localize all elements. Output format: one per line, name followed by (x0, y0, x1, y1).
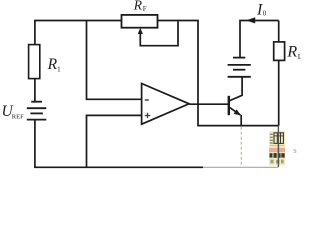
transistor Q1 collector (229, 77, 242, 101)
label RF (133, 0, 147, 13)
svg-text:R: R (286, 44, 297, 61)
svg-text:S: S (293, 148, 297, 155)
svg-text:1: 1 (57, 64, 61, 73)
label UREF (2, 103, 25, 121)
wire riser to op-amp inverting input (87, 21, 142, 100)
current arrow I0 (246, 17, 255, 23)
wire RF right terminal, feedback vertical, and lower horizontal to RL (158, 21, 279, 126)
op-amp U1 (142, 84, 190, 125)
label R1 (47, 56, 61, 74)
transistor Q1 emitter with arrow (229, 107, 241, 126)
wire RL top (278, 21, 280, 43)
gray RL wire continuation through watermark to bottom rail (277, 126, 279, 167)
wire R1 bottom to battery UREF (34, 79, 36, 101)
label I0 (256, 1, 267, 18)
svg-text:L: L (298, 52, 301, 61)
wire RL bottom down to lower horizontal (278, 60, 280, 125)
wire battery top to right loop top wire (240, 21, 279, 58)
op-amp minus sign (145, 99, 149, 101)
wire op-amp output to transistor base (189, 103, 228, 105)
wire battery bottom to ground rail and bottom wire (35, 120, 203, 168)
resistor R1 (29, 45, 40, 79)
faint emitter wire continuation to bottom rail (240, 127, 242, 167)
faint bottom wire continuation (203, 166, 278, 168)
svg-text:R: R (133, 0, 143, 12)
wire op-amp non-inverting input down to bottom rail (87, 115, 142, 167)
resistor RL (274, 42, 285, 61)
svg-text:F: F (143, 5, 147, 13)
battery V1 (right) (228, 58, 251, 77)
battery UREF (27, 102, 47, 120)
svg-text:0: 0 (263, 10, 267, 18)
wiper arrow of RF (138, 21, 178, 46)
svg-text:REF: REF (12, 114, 24, 121)
watermark stamp (269, 131, 285, 166)
svg-text:R: R (47, 56, 58, 73)
wire top-left horizontal and left vertical down to R1 (35, 21, 122, 46)
potentiometer RF (122, 15, 158, 28)
label RL (286, 44, 302, 62)
op-amp plus sign (145, 113, 150, 118)
transistor Q1 base bar (228, 96, 230, 115)
